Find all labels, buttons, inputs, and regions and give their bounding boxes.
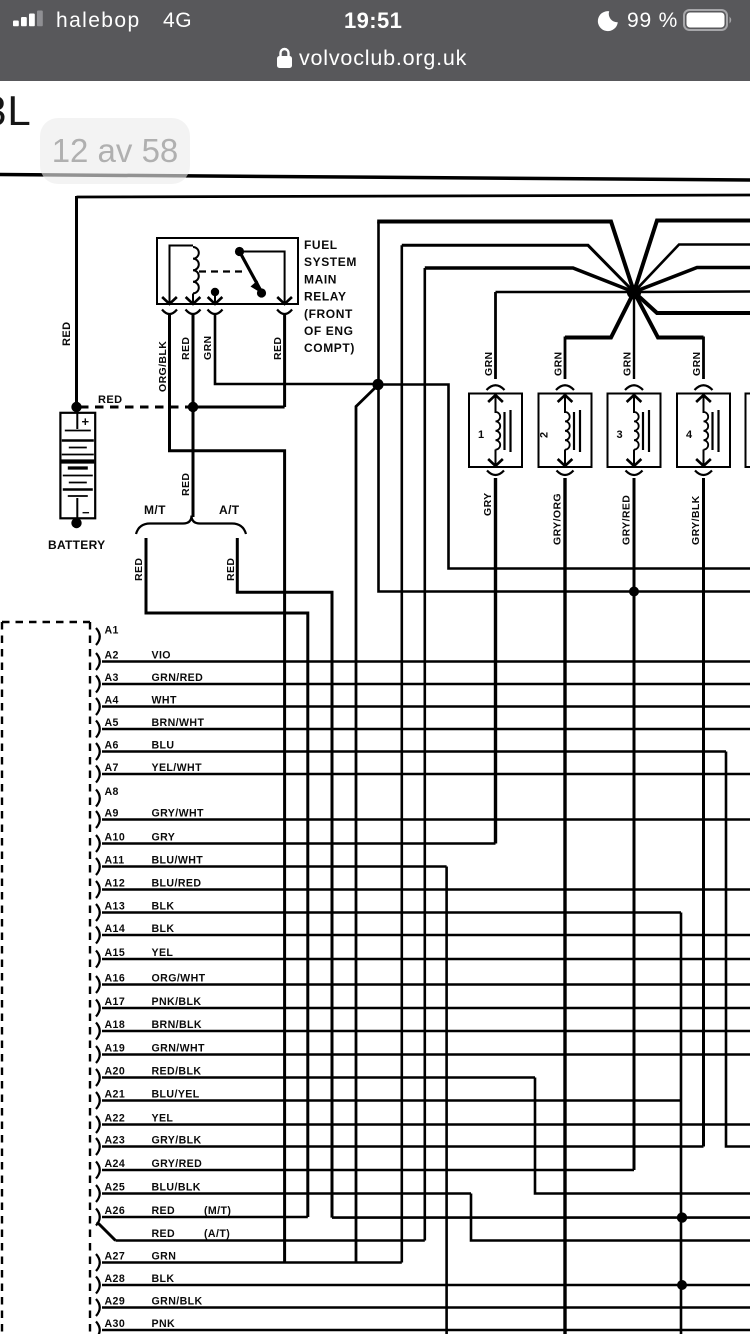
- pin A10 of ECU connector: [96, 835, 100, 852]
- relay coil lower lead: [192, 294, 194, 304]
- wire: horizontal rule under page header: [0, 175, 750, 181]
- svg-text:A20: A20: [105, 1066, 126, 1078]
- svg-text:MAIN: MAIN: [304, 272, 337, 286]
- pin A8 of ECU connector: [96, 790, 100, 807]
- svg-text:A18: A18: [105, 1019, 126, 1031]
- svg-text:YEL: YEL: [152, 947, 174, 959]
- pin A12 of ECU connector: [96, 881, 100, 898]
- relay coil terminal wire (pin 1 inside box): [170, 246, 194, 304]
- svg-text:A23: A23: [105, 1135, 126, 1147]
- fan arm right 2: [634, 245, 750, 293]
- node: junction A21 riser with A28 row: [677, 1280, 687, 1290]
- relay common wire to pin 4: [240, 252, 285, 304]
- wire ORG/BLK from relay pin 1: [170, 315, 285, 1263]
- svg-text:ORG/BLK: ORG/BLK: [157, 341, 169, 392]
- svg-text:BLU/BLK: BLU/BLK: [152, 1182, 201, 1194]
- pin A26 diagonal branch to A/T wire: [97, 1222, 116, 1241]
- relay switch pivot dot: [235, 247, 244, 256]
- pin A23 of ECU connector: [96, 1138, 100, 1155]
- ignition coil 2: [564, 337, 567, 380]
- svg-text:RED: RED: [180, 337, 192, 360]
- do-not-disturb moon icon: [596, 9, 620, 33]
- relay switch blade arrowhead: [251, 281, 263, 294]
- svg-text:VIO: VIO: [152, 650, 171, 662]
- svg-text:A24: A24: [105, 1158, 126, 1170]
- svg-text:A17: A17: [105, 996, 126, 1008]
- svg-text:PNK/BLK: PNK/BLK: [152, 996, 202, 1008]
- ignition coil 3: [633, 298, 635, 379]
- svg-text:PNK: PNK: [152, 1318, 176, 1330]
- svg-text:RELAY: RELAY: [304, 290, 347, 304]
- relay U1 box: FUEL SYSTEM MAIN RELAY: [157, 238, 298, 304]
- battery icon: [683, 9, 735, 31]
- svg-text:BLU/WHT: BLU/WHT: [152, 855, 204, 867]
- iOS status bar: [0, 0, 750, 81]
- svg-text:2: 2: [539, 431, 551, 438]
- pin A2 of ECU connector: [96, 653, 100, 670]
- wire RED solid from junction to relay pin 4 wire: [193, 406, 285, 409]
- svg-text:RED: RED: [225, 558, 237, 581]
- relay contact stub pin 3: [214, 292, 216, 303]
- svg-text:GRN/BLK: GRN/BLK: [152, 1296, 203, 1308]
- svg-text:A2: A2: [105, 650, 119, 662]
- pin A16 of ECU connector: [96, 976, 100, 993]
- svg-text:A30: A30: [105, 1318, 126, 1330]
- fan arm left 2: [402, 245, 634, 292]
- node: junction GRY/RED wire with y=591.5 bus: [629, 587, 639, 597]
- svg-text:GRY/RED: GRY/RED: [621, 495, 633, 545]
- svg-text:FUEL: FUEL: [304, 238, 338, 252]
- pin A22 of ECU connector: [96, 1116, 100, 1133]
- relay coil linkage (dashed): [199, 270, 244, 272]
- pin A18 of ECU connector: [96, 1023, 100, 1040]
- wire node A down then right (y=591.5 bus): [379, 385, 750, 592]
- padlock icon: [276, 46, 293, 69]
- svg-text:RED: RED: [133, 558, 145, 581]
- page position pill: [40, 118, 190, 184]
- svg-text:GRY/BLK: GRY/BLK: [152, 1135, 202, 1147]
- page heading fragment: [0, 87, 32, 135]
- wire: top bus line from battery to right edge: [77, 195, 750, 197]
- svg-text:BATTERY: BATTERY: [48, 538, 105, 552]
- pin A28 of ECU connector: [96, 1277, 100, 1294]
- relay switch end dot: [257, 288, 266, 297]
- svg-text:YEL: YEL: [152, 1113, 174, 1125]
- svg-text:−: −: [82, 505, 90, 520]
- svg-text:GRY/WHT: GRY/WHT: [152, 808, 205, 820]
- svg-text:SYSTEM: SYSTEM: [304, 255, 357, 269]
- pin A20 of ECU connector: [96, 1069, 100, 1086]
- fan arm to coil 4: [634, 292, 704, 338]
- node B: ignition feed star junction: [627, 285, 641, 299]
- svg-text:A27: A27: [105, 1251, 126, 1263]
- wire GRY/RED from coil 3 to pin A24: [633, 478, 636, 1170]
- ECU dashed outline top edge: [2, 621, 90, 623]
- pin A17 of ECU connector: [96, 1000, 100, 1017]
- fan arm left 3: [425, 268, 634, 292]
- svg-text:A1: A1: [105, 625, 119, 637]
- svg-text:3: 3: [617, 429, 624, 441]
- relay terminal connector cup x=193: [186, 310, 201, 315]
- svg-text:GRY/ORG: GRY/ORG: [552, 493, 564, 545]
- svg-text:A16: A16: [105, 973, 126, 985]
- relay terminal arrow at x=284.6: [277, 297, 292, 304]
- svg-text:ORG/WHT: ORG/WHT: [152, 973, 206, 985]
- wire riser from A13 row down to bottom edge: [680, 913, 683, 1334]
- svg-text:A21: A21: [105, 1089, 126, 1101]
- svg-text:A29: A29: [105, 1296, 126, 1308]
- svg-text:BLK: BLK: [152, 901, 175, 913]
- svg-text:4: 4: [686, 429, 693, 441]
- wire riser from A11 row to bottom edge: [445, 867, 448, 1334]
- ignition coil 1: [494, 292, 497, 379]
- node: battery - terminal: [71, 518, 81, 528]
- svg-text:BLU/RED: BLU/RED: [152, 878, 202, 890]
- pin A13 of ECU connector: [96, 904, 100, 921]
- wire: battery positive feed (RED) up to top bus: [75, 196, 78, 408]
- svg-text:BLU/YEL: BLU/YEL: [152, 1089, 200, 1101]
- wire GRY from coil 1 to pin A10: [494, 478, 497, 844]
- svg-text:A6: A6: [105, 740, 119, 752]
- wire riser from A6 row down to right edge stub: [726, 752, 750, 1147]
- svg-text:GRN: GRN: [622, 351, 634, 376]
- relay terminal arrow at x=169.5: [162, 297, 177, 304]
- wire A/T feed jog to right edge: [332, 1216, 750, 1219]
- svg-text:+: +: [82, 414, 90, 429]
- pin A24 of ECU connector: [96, 1162, 100, 1179]
- relay terminal arrow at x=215: [208, 297, 223, 304]
- pin A6 of ECU connector: [96, 743, 100, 760]
- svg-text:A22: A22: [105, 1113, 126, 1125]
- pin A19 of ECU connector: [96, 1046, 100, 1063]
- fan arm to coil 2: [565, 292, 634, 338]
- pin A15 of ECU connector: [96, 951, 100, 968]
- svg-text:A28: A28: [105, 1273, 126, 1285]
- pin A14 of ECU connector: [96, 927, 100, 944]
- battery: [60, 413, 95, 519]
- pin A27 of ECU connector: [96, 1254, 100, 1271]
- relay switch blade: [240, 252, 261, 291]
- wire GRY/BLK from coil 4 to pin A23: [702, 478, 705, 1147]
- svg-text:RED: RED: [180, 473, 192, 496]
- svg-text:BLU: BLU: [152, 740, 175, 752]
- wire GRY/ORG from coil 2 (to bottom edge): [563, 478, 566, 1334]
- wire node A diagonal to lower-left vertical: [356, 385, 378, 1263]
- wire node A up to top corner: [377, 222, 380, 385]
- svg-text:GRY: GRY: [482, 492, 494, 516]
- wire node A right to corner then down then right (y=568.5 bus): [378, 385, 750, 569]
- wire GRN from relay pin 3: [215, 315, 378, 384]
- svg-text:A8: A8: [105, 786, 119, 798]
- pin A5 of ECU connector: [96, 721, 100, 738]
- svg-text:(A/T): (A/T): [204, 1228, 230, 1240]
- ECU dashed outline right edge: [89, 622, 91, 1334]
- fan arm to coil 1: [496, 291, 635, 294]
- svg-text:GRN: GRN: [691, 351, 703, 376]
- svg-text:A19: A19: [105, 1043, 126, 1055]
- svg-text:A26: A26: [105, 1205, 126, 1217]
- fan arm right 4: [634, 290, 750, 293]
- svg-text:GRN: GRN: [202, 335, 214, 360]
- svg-text:BLK: BLK: [152, 923, 175, 935]
- fan arm left 1 (from node A riser): [377, 222, 634, 293]
- svg-text:A12: A12: [105, 878, 126, 890]
- svg-text:RED: RED: [272, 337, 284, 360]
- svg-text:A5: A5: [105, 717, 119, 729]
- svg-text:A4: A4: [105, 695, 119, 707]
- svg-text:A13: A13: [105, 901, 126, 913]
- svg-text:YEL/WHT: YEL/WHT: [152, 762, 203, 774]
- wire RED from relay pin 4 down: [283, 315, 286, 407]
- svg-text:RED: RED: [152, 1205, 176, 1217]
- svg-text:A/T: A/T: [219, 503, 240, 517]
- node: battery + terminal junction: [71, 402, 81, 412]
- svg-text:RED: RED: [152, 1228, 176, 1240]
- svg-text:BRN/BLK: BRN/BLK: [152, 1019, 202, 1031]
- svg-text:M/T: M/T: [144, 503, 166, 517]
- svg-text:1: 1: [478, 429, 485, 441]
- svg-text:COMPT): COMPT): [304, 341, 355, 355]
- relay coil (inductor): [193, 247, 199, 293]
- wire RED A/T branch: [237, 538, 332, 1218]
- svg-text:OF ENG: OF ENG: [304, 324, 354, 338]
- svg-text:GRN: GRN: [483, 351, 495, 376]
- pin A1 of ECU connector: [96, 628, 100, 645]
- wire RED dashed from battery to junction: [80, 406, 193, 409]
- svg-text:A11: A11: [105, 855, 125, 867]
- pin A25 of ECU connector: [96, 1185, 100, 1202]
- pin A3 of ECU connector: [96, 676, 100, 693]
- wire RED M/T branch: [146, 538, 308, 1217]
- svg-text:BLK: BLK: [152, 1273, 175, 1285]
- brace for M/T / A/T selection: [136, 516, 246, 535]
- node: junction RED wire and battery dashed line: [188, 402, 198, 412]
- svg-text:GRY/RED: GRY/RED: [152, 1158, 203, 1170]
- svg-text:A10: A10: [105, 832, 126, 844]
- wire RED (A/T) line at pin A26: [116, 1239, 425, 1242]
- pin A4 of ECU connector: [96, 698, 100, 715]
- svg-text:A15: A15: [105, 947, 126, 959]
- pin A9 of ECU connector: [96, 811, 100, 828]
- ignition coil 4: [702, 337, 705, 380]
- fan arm right 3: [634, 268, 750, 293]
- node: relay contact stationary point: [211, 288, 219, 296]
- svg-text:GRN: GRN: [553, 351, 565, 376]
- svg-text:RED: RED: [98, 394, 122, 406]
- pin A21 of ECU connector: [96, 1092, 100, 1109]
- svg-text:(M/T): (M/T): [204, 1205, 231, 1217]
- svg-text:A25: A25: [105, 1182, 126, 1194]
- relay terminal connector cup x=284.6: [277, 310, 292, 315]
- svg-text:GRN: GRN: [152, 1251, 177, 1263]
- ignition coil 5 (cut off at right edge): [746, 394, 750, 468]
- relay terminal arrow at x=193: [186, 297, 201, 304]
- wire riser from A20 row jog to right edge: [535, 1078, 750, 1194]
- svg-text:A9: A9: [105, 808, 119, 820]
- svg-text:GRY: GRY: [152, 832, 176, 844]
- node: junction on A/T jog line: [677, 1212, 687, 1222]
- signal strength icon: [13, 10, 47, 27]
- pin A30 of ECU connector: [96, 1322, 100, 1334]
- ECU dashed outline left edge: [1, 622, 3, 1334]
- node A: main GRN distribution junction: [372, 379, 383, 390]
- wire jog on A25 row to right edge: [471, 1194, 750, 1241]
- pin A26 of ECU connector: [96, 1209, 100, 1226]
- svg-text:GRN/WHT: GRN/WHT: [152, 1043, 206, 1055]
- relay terminal connector cup x=215: [208, 310, 223, 315]
- wire riser to fan arm 3: [423, 268, 426, 1241]
- svg-text:WHT: WHT: [152, 695, 177, 707]
- svg-text:A7: A7: [105, 762, 119, 774]
- wire RED from relay pin 2 down to M/T-A/T brace: [192, 315, 195, 517]
- fan arm right 5: [634, 292, 750, 313]
- svg-text:(FRONT: (FRONT: [304, 307, 353, 321]
- relay terminal connector cup x=169.5: [162, 310, 177, 315]
- pin A11 of ECU connector: [96, 858, 100, 875]
- svg-text:RED/BLK: RED/BLK: [152, 1066, 202, 1078]
- fan arm right 1: [634, 221, 750, 293]
- pin A29 of ECU connector: [96, 1299, 100, 1316]
- svg-text:GRY/BLK: GRY/BLK: [690, 495, 702, 545]
- svg-text:RED: RED: [61, 322, 73, 346]
- wire riser to fan arm 2: [400, 245, 403, 1262]
- pin A7 of ECU connector: [96, 766, 100, 783]
- svg-text:A3: A3: [105, 672, 119, 684]
- svg-text:BRN/WHT: BRN/WHT: [152, 717, 205, 729]
- svg-text:GRN/RED: GRN/RED: [152, 672, 204, 684]
- svg-text:A14: A14: [105, 923, 126, 935]
